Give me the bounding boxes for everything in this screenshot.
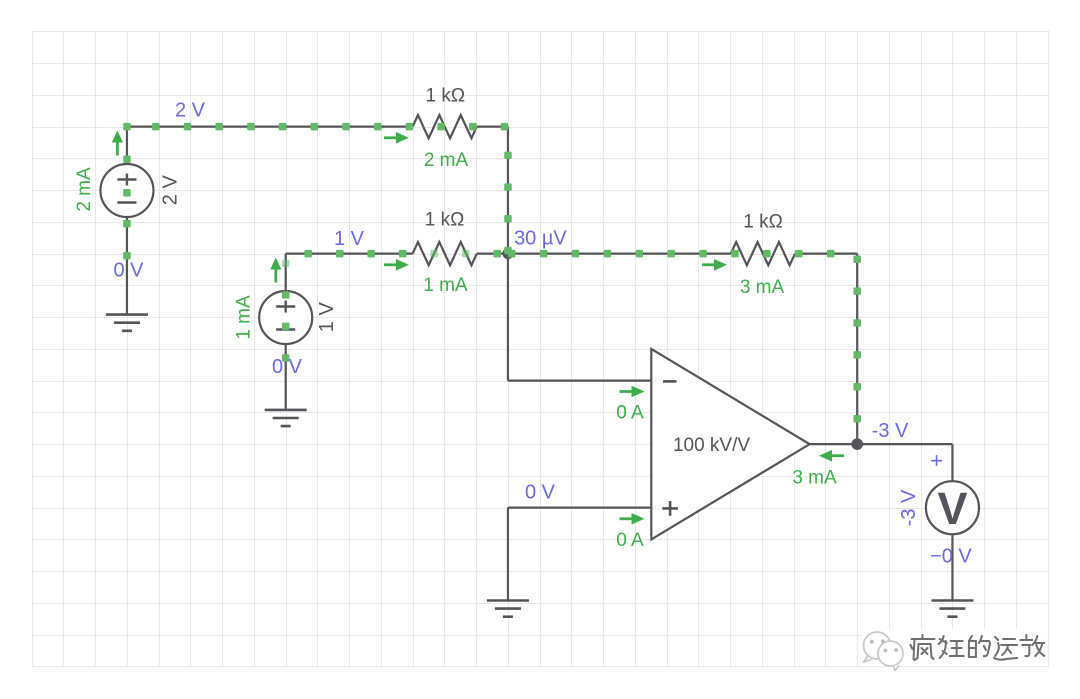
watermark background [862, 629, 1047, 666]
current arrow into R3 [702, 263, 716, 266]
svg-text:0 A: 0 A [616, 530, 644, 551]
current arrow into R1 [384, 136, 398, 139]
current arrow inverting input [620, 390, 634, 393]
voltage source V2 1V [259, 291, 312, 344]
wire voltmeter top pin [951, 444, 953, 481]
wire op-amp output to voltmeter [810, 443, 953, 445]
current flow dots net C (node to output) [508, 250, 861, 423]
current flow dots net B (1V source branch) [282, 250, 501, 362]
wire V2 top pin [285, 254, 287, 291]
svg-text:0 A: 0 A [616, 403, 644, 424]
svg-text:2 V: 2 V [160, 175, 182, 206]
op-amp non-inverting pin marker [662, 501, 678, 516]
wire V1 top pin [126, 127, 128, 164]
svg-text:3 mA: 3 mA [740, 277, 785, 298]
wire row7 V2 to R2 [286, 253, 413, 255]
svg-text:1 mA: 1 mA [423, 275, 468, 296]
wire top net row3 [127, 126, 413, 128]
watermark text 疯狂的运放 (drawn glyph paths) [911, 635, 1046, 661]
voltage source V1 2V [100, 164, 153, 217]
svg-text:-3 V: -3 V [898, 489, 920, 526]
wire col15 down to ground [507, 508, 509, 601]
wire non-inverting input [508, 507, 651, 509]
wire V2 bottom to ground [285, 344, 287, 410]
op-amp inverting pin marker [663, 380, 677, 383]
svg-text:3 mA: 3 mA [792, 468, 837, 489]
svg-text:V: V [937, 483, 967, 534]
svg-text:30 µV: 30 µV [514, 228, 567, 250]
current arrow non-inverting input [620, 517, 634, 520]
svg-text:0 V: 0 V [272, 356, 303, 378]
wire R2 right through node to R3 [477, 253, 731, 255]
svg-text:2 mA: 2 mA [424, 150, 469, 171]
svg-text:2 mA: 2 mA [74, 167, 95, 212]
resistor R1 1k ohm [413, 115, 477, 138]
current arrow at V2 [274, 269, 277, 283]
current arrow at output [830, 454, 844, 457]
svg-text:0 V: 0 V [113, 260, 144, 282]
wire vertical col26 down to output node [856, 254, 858, 445]
svg-text:1 V: 1 V [334, 228, 365, 250]
svg-text:100 kV/V: 100 kV/V [673, 435, 750, 456]
wire voltmeter bottom pin [951, 534, 953, 600]
svg-text:1 kΩ: 1 kΩ [425, 210, 465, 231]
svg-text:1 kΩ: 1 kΩ [426, 85, 466, 106]
current arrow at V1 [116, 142, 119, 156]
ground for V1 [106, 315, 148, 331]
node junction col15 row7 [502, 248, 513, 259]
watermark WeChat logo [864, 632, 904, 671]
svg-text:2 V: 2 V [175, 99, 206, 121]
wire inverting input [508, 380, 651, 382]
voltmeter PR1 [926, 481, 979, 534]
svg-text:1 V: 1 V [316, 302, 338, 333]
ground for V2 [265, 410, 307, 426]
resistor R2 1k ohm [413, 242, 477, 265]
wire V1 bottom to ground [126, 217, 128, 315]
ground for voltmeter [931, 601, 973, 617]
svg-text:1 kΩ: 1 kΩ [743, 212, 783, 233]
svg-text:−0 V: −0 V [930, 545, 972, 567]
wire vertical col15 down through node to inverting input [507, 127, 509, 381]
node junction output [851, 438, 863, 450]
ground at non-inverting input [487, 601, 529, 617]
svg-text:-3 V: -3 V [872, 420, 909, 442]
svg-text:+: + [930, 448, 943, 473]
wire R3 right to corner [795, 253, 857, 255]
op-amp U1 [651, 349, 809, 540]
svg-text:0 V: 0 V [525, 482, 556, 504]
current arrow into R2 [384, 263, 398, 266]
svg-text:1 mA: 1 mA [234, 295, 255, 340]
wire R1 right to corner [477, 126, 508, 128]
resistor R3 1k ohm [731, 242, 795, 265]
current flow dots net A (2V source to node) [123, 123, 512, 260]
